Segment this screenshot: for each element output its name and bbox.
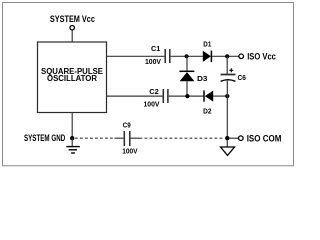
wire C9 left stub	[115, 137, 124, 139]
wire C9 right stub	[131, 137, 140, 139]
svg-text:C6: C6	[238, 73, 247, 82]
capacitor C2	[162, 89, 164, 103]
wire ISO Vcc junction down to C6	[226, 56, 228, 74]
svg-text:C1: C1	[151, 44, 160, 53]
svg-text:D2: D2	[203, 106, 211, 115]
node junction top-left	[185, 54, 189, 58]
terminal ISO COM	[239, 136, 244, 141]
wire	[71, 30, 73, 42]
wire C2 to D2	[169, 95, 204, 97]
wire oscillator bottom to SYSTEM GND node	[71, 113, 73, 139]
wire D3 to bottom rail	[186, 81, 188, 96]
svg-text:SYSTEM Vcc: SYSTEM Vcc	[50, 14, 95, 24]
svg-text:C2: C2	[149, 87, 159, 96]
terminal SYSTEM Vcc	[70, 26, 74, 30]
wire ISO COM junction to terminal	[230, 137, 239, 139]
diode D2	[203, 90, 205, 101]
svg-text:D3: D3	[197, 74, 208, 83]
node junction ISO COM	[225, 136, 229, 140]
svg-text:100V: 100V	[122, 146, 137, 155]
ground symbol SYSTEM GND	[71, 138, 73, 146]
diode D3	[179, 70, 194, 72]
wire bottom junction down to ISO COM	[226, 96, 228, 138]
ground symbol ISO COM	[226, 140, 228, 147]
svg-text:100V: 100V	[145, 57, 161, 66]
svg-text:C9: C9	[123, 120, 131, 129]
svg-text:100V: 100V	[144, 100, 160, 109]
wire D1 to ISO Vcc terminal	[212, 55, 239, 57]
diode D1	[203, 51, 211, 62]
svg-text:OSCILLATOR: OSCILLATOR	[47, 74, 97, 83]
svg-text:ISO Vcc: ISO Vcc	[247, 52, 276, 62]
wire dashed gnd rail left	[75, 137, 115, 139]
capacitor C9	[123, 131, 125, 146]
wire bottom rail from oscillator to C2	[107, 95, 163, 97]
svg-text:ISO COM: ISO COM	[247, 133, 282, 143]
wire C1 to D1	[171, 55, 203, 57]
svg-text:SYSTEM GND: SYSTEM GND	[24, 133, 65, 143]
plus sign of C6	[229, 69, 233, 71]
oscillator U1 box	[38, 42, 107, 113]
node junction bottom-right	[225, 94, 229, 98]
wire C6 to bottom junction	[226, 80, 228, 96]
capacitor C1	[164, 49, 166, 63]
capacitor C6 polarized	[221, 74, 236, 76]
wire top junction to D3	[186, 56, 188, 71]
wire D2 to right rail	[213, 95, 227, 97]
wire dashed gnd rail right	[140, 137, 225, 139]
wire top rail from oscillator to C1	[107, 55, 165, 57]
terminal ISO Vcc	[239, 54, 244, 59]
node junction top-right	[225, 54, 229, 58]
node junction bottom-left	[185, 94, 189, 98]
node junction SYSTEM GND	[70, 136, 74, 140]
svg-text:D1: D1	[203, 40, 211, 49]
